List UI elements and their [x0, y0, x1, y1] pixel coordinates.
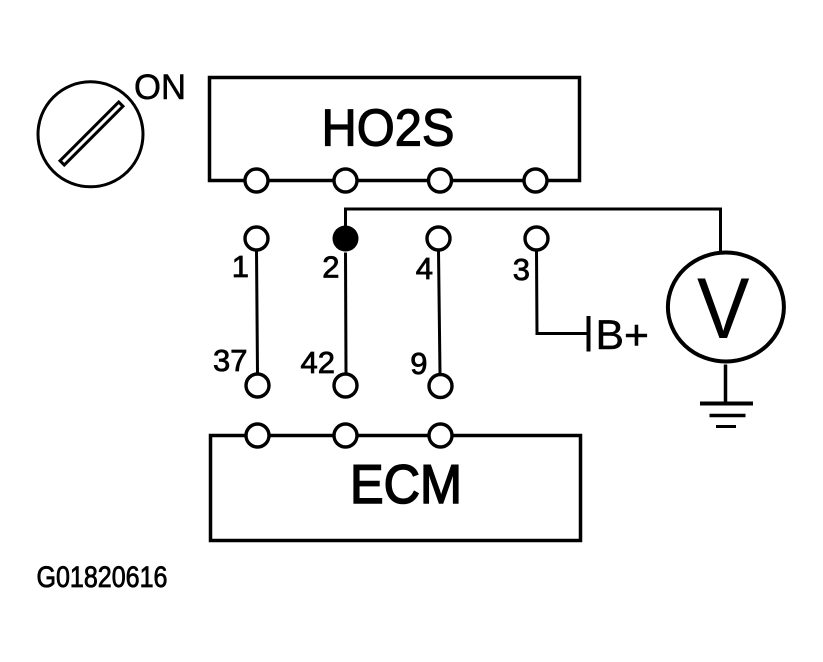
- pin 3 terminal: [525, 227, 548, 250]
- svg-text:2: 2: [322, 250, 339, 285]
- wire pin4 to pin9: [439, 251, 441, 374]
- ECM block: [211, 436, 581, 541]
- svg-text:1: 1: [232, 249, 249, 284]
- HO2S sensor block: [210, 78, 580, 181]
- ignition key switch S1: [38, 82, 143, 187]
- pin 42 terminal: [334, 374, 357, 397]
- ECM terminal C: [429, 424, 452, 447]
- node: solder junction at pin 2: [333, 226, 359, 252]
- HO2S terminal B: [334, 169, 357, 192]
- svg-text:37: 37: [213, 343, 247, 378]
- svg-text:ON: ON: [134, 68, 186, 107]
- svg-text:HO2S: HO2S: [322, 100, 455, 158]
- wire pin3 to B+: [537, 251, 588, 334]
- svg-text:V: V: [697, 261, 750, 357]
- ECM terminal B: [334, 424, 357, 447]
- svg-text:9: 9: [410, 346, 427, 381]
- pin 9 terminal: [429, 375, 452, 398]
- voltmeter V1: [668, 253, 784, 362]
- svg-text:42: 42: [301, 345, 335, 380]
- wire: pin 2 junction up and right to voltmeter: [346, 209, 721, 251]
- svg-text:ECM: ECM: [350, 453, 462, 515]
- HO2S terminal C: [429, 169, 452, 192]
- svg-text:4: 4: [416, 251, 433, 286]
- svg-text:3: 3: [513, 252, 530, 287]
- pin 4 terminal: [427, 227, 450, 250]
- pin 37 terminal: [246, 374, 269, 397]
- HO2S terminal D: [524, 169, 547, 192]
- wire pin2 to pin42: [344, 253, 348, 374]
- HO2S terminal A: [245, 169, 268, 192]
- ground symbol: [700, 404, 753, 427]
- svg-text:G01820616: G01820616: [37, 561, 168, 594]
- wire pin1 to pin37: [257, 251, 258, 374]
- pin 1 terminal: [245, 227, 268, 250]
- B+ terminal bar: [587, 316, 591, 352]
- ECM terminal A: [246, 424, 269, 447]
- svg-text:B+: B+: [596, 311, 650, 358]
- wire voltmeter to ground: [724, 365, 728, 405]
